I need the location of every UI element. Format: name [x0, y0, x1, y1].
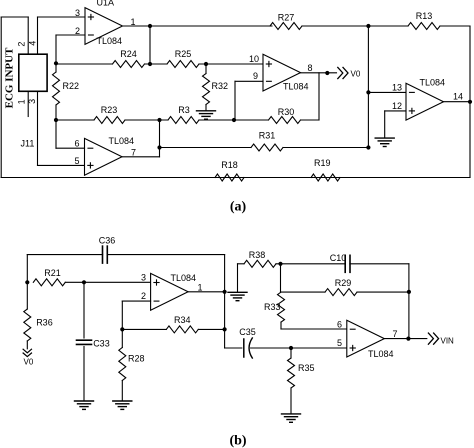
resistor R29 [325, 289, 357, 296]
pin 3 number b [141, 272, 146, 282]
pin 8 number [307, 63, 312, 73]
wire: R31 row [159, 147, 368, 149]
svg-text:R25: R25 [175, 49, 192, 59]
svg-text:R23: R23 [101, 105, 118, 115]
wire: R21 to pin3 [65, 281, 150, 283]
wire: pin12 to ground [385, 111, 406, 137]
pin 10 number [249, 54, 259, 64]
svg-text:TL084: TL084 [171, 273, 197, 283]
svg-text:2: 2 [141, 291, 146, 301]
svg-text:R28: R28 [128, 354, 145, 364]
svg-text:R27: R27 [278, 13, 295, 23]
svg-text:12: 12 [392, 101, 402, 111]
svg-text:R35: R35 [298, 363, 315, 373]
svg-text:V0: V0 [351, 69, 361, 78]
pin 1 number b [197, 282, 202, 292]
svg-text:R24: R24 [120, 49, 137, 59]
resistor R32 [203, 74, 210, 111]
svg-text:2: 2 [75, 26, 80, 36]
label U1A [97, 0, 115, 8]
resistor R21 [33, 279, 65, 286]
wire: op2 output [301, 72, 337, 74]
label (b) [229, 434, 246, 448]
wire: R30 right up to output [301, 73, 320, 120]
wire: R29 row [281, 291, 409, 293]
svg-text:5: 5 [337, 338, 342, 348]
wire: left vertical to R21 [26, 255, 28, 283]
pin 13 number [392, 82, 402, 92]
resistor R35 [288, 348, 295, 414]
label R32 [212, 81, 229, 91]
label TL084 op2 [283, 82, 309, 92]
pin 6 number b [337, 319, 342, 329]
wire: to op3 pin13 [368, 91, 406, 93]
resistor R13 [408, 23, 440, 30]
label C10 [330, 253, 347, 263]
label R29 [335, 278, 352, 288]
label V0 port b [24, 358, 34, 367]
svg-text:5: 5 [74, 156, 79, 166]
label R24 [120, 49, 137, 59]
capacitor C35 [244, 338, 253, 358]
junction dot R34/R28 [120, 327, 124, 331]
capacitor C33 [77, 340, 92, 344]
pin 12 number [392, 101, 402, 111]
svg-text:TL084: TL084 [109, 136, 135, 146]
capacitor C10 [345, 255, 350, 272]
junction dot output C36 [223, 290, 227, 294]
junction dot output/feedback [148, 24, 152, 28]
op-amp U1C [263, 54, 301, 91]
wire: pin2 wire [122, 301, 150, 329]
pin 7 number b [392, 329, 397, 339]
capacitor C36 [103, 246, 108, 263]
label R31 [259, 131, 276, 141]
resistor R24 [113, 61, 145, 68]
wire: R23 row left [56, 119, 94, 121]
junction dot V0 tap [325, 71, 329, 75]
pin 4 label [27, 41, 37, 46]
svg-text:C10: C10 [330, 253, 347, 263]
wire: C35 to pin5 [251, 347, 347, 349]
wire: op3 output [444, 101, 471, 103]
junction dot R34 right [223, 327, 227, 331]
junction dot pin13 branch [366, 90, 370, 94]
svg-text:14: 14 [453, 92, 463, 102]
svg-text:C36: C36 [99, 235, 116, 245]
label J11 [21, 139, 35, 149]
svg-text:1: 1 [17, 99, 27, 104]
label C33 [93, 339, 110, 349]
svg-text:1: 1 [197, 282, 202, 292]
wire: op4 output [122, 120, 160, 157]
wire: left frame vertical [0, 17, 2, 178]
svg-text:J11: J11 [21, 139, 35, 149]
resistor R38 [244, 260, 276, 267]
svg-text:R13: R13 [416, 11, 433, 21]
node A dot [54, 61, 58, 65]
pin 1 label [17, 99, 27, 104]
op-amp U2B [347, 320, 385, 357]
label R34 [174, 315, 191, 325]
wire: op6 output [384, 338, 427, 340]
label V0 [351, 69, 361, 78]
svg-text:7: 7 [392, 329, 397, 339]
label R19 [314, 158, 331, 168]
wire: R33 vertical top [280, 264, 282, 292]
wire: R23 to node [125, 119, 168, 121]
junction dot R21 right [82, 280, 86, 284]
junction dot R27/R13 node [366, 24, 370, 28]
svg-text:R34: R34 [174, 315, 191, 325]
resistor R28 [119, 329, 126, 400]
label R21 [44, 268, 61, 278]
svg-text:R32: R32 [212, 81, 229, 91]
resistor R30 [269, 117, 301, 124]
label R38 [249, 250, 266, 260]
svg-text:9: 9 [253, 71, 258, 81]
port VIN chevrons [428, 333, 438, 344]
wire: R34 row [122, 328, 224, 330]
wire: bottom frame of (a) with J11 pin2 net [1, 177, 470, 179]
wire: right vertical of op5 net [225, 255, 242, 348]
ground R32 bottom bar on row [0, 0, 1, 1]
label TL084 op3 [420, 77, 446, 87]
junction dot R35 top [289, 346, 293, 350]
svg-text:6: 6 [74, 139, 79, 149]
wire: C36 top row [27, 254, 224, 256]
label C35 [239, 327, 256, 337]
op-amp U1A [85, 8, 123, 45]
wire: right frame vertical (output net) [469, 26, 471, 178]
svg-text:R33: R33 [264, 302, 281, 312]
svg-text:R21: R21 [44, 268, 61, 278]
label (a) [230, 200, 247, 215]
wire: R27 to R13 [302, 25, 408, 27]
resistor R33 [278, 292, 347, 329]
wire: J11 pin3 down to op-amp pin5 [38, 91, 85, 165]
label ECG INPUT [4, 47, 16, 108]
label R18 [221, 160, 238, 170]
svg-text:TL084: TL084 [283, 82, 309, 92]
svg-text:TL084: TL084 [420, 77, 446, 87]
ground for R32 [197, 111, 216, 119]
pin 9 number [253, 71, 258, 81]
port V0 chevrons [338, 67, 348, 78]
wire: C10 right vertical [408, 264, 410, 339]
svg-text:C35: C35 [239, 327, 256, 337]
label TL084 op4 [109, 136, 135, 146]
resistor R19 [311, 174, 340, 181]
resistor R22 [53, 63, 60, 120]
wire: J11 pin2 to left frame [1, 17, 28, 54]
svg-text:ECG INPUT: ECG INPUT [4, 47, 16, 108]
label R33 [264, 302, 281, 312]
label R27 [278, 13, 295, 23]
label TL084 op5 [171, 273, 197, 283]
ground for pin12 [375, 138, 394, 146]
wire: to C10 [276, 263, 409, 265]
resistor R23 [94, 117, 125, 124]
wire: R38 left leg [238, 264, 245, 292]
wire: U1A output row [123, 25, 273, 27]
junction dot pin9 node [232, 118, 236, 122]
connector J11 body [19, 54, 47, 91]
svg-text:R18: R18 [221, 160, 238, 170]
svg-text:10: 10 [249, 54, 259, 64]
svg-text:1: 1 [130, 17, 135, 27]
junction dot R38 right [278, 262, 282, 266]
pin 2 number [75, 26, 80, 36]
junction dot op3 output [468, 100, 472, 104]
svg-text:TL084: TL084 [368, 349, 394, 359]
junction dot R29 right [407, 290, 411, 294]
svg-text:(b): (b) [229, 434, 246, 448]
resistor R3 [168, 117, 199, 124]
op-amp U2A [151, 273, 189, 310]
svg-text:VIN: VIN [441, 337, 455, 346]
label R36 [36, 317, 53, 327]
svg-text:7: 7 [131, 147, 136, 157]
pin 2 number b [141, 291, 146, 301]
pin 2 label [17, 42, 27, 47]
resistor R34 [166, 326, 198, 333]
svg-text:TL084: TL084 [97, 36, 123, 46]
label TL084 U1A [97, 36, 123, 46]
wire: J11 pin1 stub [27, 91, 29, 116]
label R13 [416, 11, 433, 21]
svg-text:V0: V0 [24, 358, 34, 367]
wire: R13 to right frame [440, 25, 470, 27]
svg-text:R29: R29 [335, 278, 352, 288]
label R30 [278, 107, 295, 117]
pin 3 label [27, 99, 37, 104]
junction dot R31 left [157, 145, 161, 149]
label R3 [178, 105, 190, 115]
label C36 [99, 235, 116, 245]
junction dot R31 right [366, 145, 370, 149]
svg-text:C33: C33 [93, 339, 110, 349]
resistor R27 [270, 23, 302, 30]
svg-text:2: 2 [17, 42, 27, 47]
svg-text:R38: R38 [249, 250, 266, 260]
svg-text:R22: R22 [63, 81, 80, 91]
ground for R35 [282, 414, 301, 422]
wire: U1A pin2 to node A [56, 35, 85, 63]
pin 1 number [130, 17, 135, 27]
pin 14 number [453, 92, 463, 102]
svg-text:3: 3 [75, 8, 80, 18]
junction dot R24/R25 row [148, 62, 152, 66]
junction dot VIN tap [406, 337, 410, 341]
pin 7 number [131, 147, 136, 157]
pin 3 number [75, 8, 80, 18]
resistor R25 [167, 61, 199, 68]
label R25 [175, 49, 192, 59]
label R28 [128, 354, 145, 364]
ground for R28 [113, 401, 132, 409]
wire: mid vertical R27 node [367, 26, 369, 148]
svg-text:R19: R19 [314, 158, 331, 168]
svg-text:R36: R36 [36, 317, 53, 327]
svg-text:8: 8 [307, 63, 312, 73]
wire: R3 to pin9 node [199, 119, 269, 121]
svg-text:13: 13 [392, 82, 402, 92]
wire: to op2 pin10 [199, 63, 263, 65]
label VIN [441, 337, 455, 346]
junction dot R23/R3 node [157, 118, 161, 122]
wire: pin9 from node [235, 81, 263, 120]
label R35 [298, 363, 315, 373]
wire: J11 pin4 up to U1A pin3 [38, 17, 86, 54]
pin 5 number b [337, 338, 342, 348]
resistor R18 [215, 174, 244, 181]
junction dot R21 left [25, 280, 29, 284]
wire: R24 row [56, 63, 167, 65]
resistor R31 [251, 144, 283, 151]
op-amp U1D [406, 83, 444, 120]
svg-text:R3: R3 [178, 105, 190, 115]
op-amp U1B [85, 138, 123, 175]
svg-text:(a): (a) [230, 200, 247, 215]
svg-text:U1A: U1A [97, 0, 115, 8]
wire: node to pin6 [56, 120, 85, 148]
wire: C33 branch [83, 282, 85, 400]
svg-text:3: 3 [141, 272, 146, 282]
pin 6 number [74, 139, 79, 149]
pin 5 number [74, 156, 79, 166]
svg-text:R31: R31 [259, 131, 276, 141]
port V0 down chevrons [23, 349, 31, 356]
wire: feedback vertical [149, 26, 151, 64]
ground for R38 [228, 292, 247, 300]
label R22 [63, 81, 80, 91]
ground for C33 [75, 401, 94, 409]
junction dot R25/R32 [204, 62, 208, 66]
label TL084 op6 [368, 349, 394, 359]
label R23 [101, 105, 118, 115]
svg-text:4: 4 [27, 41, 37, 46]
junction dot R22 bottom [54, 118, 58, 122]
svg-text:R30: R30 [278, 107, 295, 117]
wire: op5 output [188, 291, 225, 293]
resistor R36 [24, 282, 31, 349]
svg-text:6: 6 [337, 319, 342, 329]
wire: R32 stem [205, 64, 207, 74]
